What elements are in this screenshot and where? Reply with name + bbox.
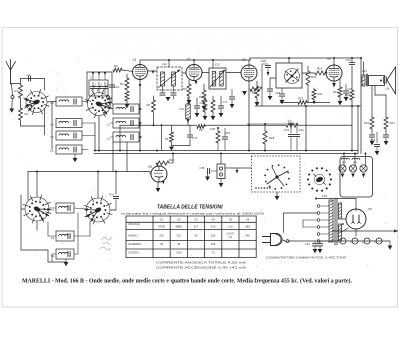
svg-text:CA: CA [229, 236, 233, 239]
svg-text:(misurate fra i singoli elettr: (misurate fra i singoli elettrodi e mass… [121, 212, 264, 216]
mains plug [263, 236, 271, 238]
wire riser x161 [161, 125, 163, 150]
svg-text:R21: R21 [318, 92, 324, 96]
switch plate S6 (dotted circle) [330, 178, 332, 180]
wire antenna lead [11, 83, 21, 85]
svg-text:V3: V3 [194, 218, 198, 222]
junction arrow R21 [313, 101, 316, 105]
svg-text:L11: L11 [162, 62, 167, 66]
trimmer box C7 [89, 80, 108, 96]
capacitor C44 [319, 241, 321, 243]
wire S2b riser [97, 172, 99, 199]
svg-text:V3: V3 [242, 58, 246, 62]
capacitor C30b [222, 136, 227, 138]
coil box L7 [56, 203, 74, 213]
svg-text:C1: C1 [27, 73, 31, 77]
svg-text:230: 230 [159, 234, 164, 238]
connector J1 [217, 164, 225, 179]
svg-text:6B8G: 6B8G [175, 225, 182, 229]
switch wafer S1a [26, 92, 47, 113]
switch wafer S2a [25, 197, 49, 221]
resistor R18 [264, 124, 266, 131]
wire L12 to V3 [226, 72, 241, 74]
resistor R6 [153, 96, 155, 100]
svg-text:L14: L14 [385, 87, 390, 91]
rectifier V6 [346, 209, 366, 229]
wire C7 left rail [86, 72, 88, 103]
ground C38 [207, 173, 209, 177]
wire osc left [270, 77, 276, 79]
switch wafer S1b [88, 93, 111, 116]
wire coilA verticals [112, 142, 114, 172]
wire S2b right [110, 209, 116, 211]
wire bus drop x352 [351, 66, 353, 90]
resistor R23 on bus [280, 102, 298, 104]
svg-text:R1: R1 [15, 89, 19, 93]
svg-text:C17: C17 [193, 136, 198, 140]
svg-text:R26: R26 [364, 121, 370, 125]
antenna [10, 70, 12, 84]
resistor R5b [171, 125, 173, 132]
wire S1b down rail [98, 116, 100, 151]
ground C44 [318, 249, 323, 253]
resistor R10 [302, 72, 315, 74]
svg-text:C26: C26 [261, 59, 267, 63]
choke R4b [125, 91, 129, 101]
svg-text:1+9: 1+9 [228, 225, 233, 229]
svg-text:V6: V6 [246, 218, 250, 222]
svg-text:2×270: 2×270 [227, 232, 235, 235]
svg-text:V2: V2 [177, 218, 181, 222]
terminal S1b b [107, 103, 110, 106]
svg-text:R14: R14 [250, 89, 256, 93]
tube V1 [133, 65, 148, 80]
wire coilA stubs [110, 117, 113, 119]
wire lamp feeds [343, 154, 345, 166]
resistor R1 [20, 79, 22, 86]
L12 secondary [220, 72, 224, 87]
wire V1 cathode rail [139, 80, 141, 151]
svg-text:R23: R23 [298, 97, 304, 101]
dial unit shield (dotted) [252, 156, 301, 192]
wire AVC bus [28, 171, 150, 173]
ground R17 [203, 116, 208, 120]
coil box L6 [56, 145, 82, 154]
resistor R18a [212, 96, 214, 100]
ground R18a [211, 116, 216, 120]
wire r18 top link [247, 123, 297, 125]
svg-text:200: 200 [211, 234, 216, 238]
coil box L2 [113, 118, 139, 128]
capacitor C12 [162, 86, 164, 92]
svg-text:L15: L15 [322, 194, 327, 198]
pencil mark [100, 237, 112, 250]
resistor R17 [204, 96, 206, 100]
output transformer L13 [362, 75, 365, 86]
ground C25 [344, 97, 349, 101]
electrolytic C49 [364, 238, 370, 244]
svg-text:+: + [350, 240, 352, 244]
tube V3 [241, 65, 257, 81]
resistor R4 [126, 74, 128, 78]
tube V5 [151, 166, 167, 182]
wire V1 to L11 [148, 70, 158, 72]
wire J1 riser [220, 154, 222, 165]
wire C41 riser [115, 172, 117, 195]
electrolytic C47 [340, 238, 346, 244]
svg-text:C30: C30 [210, 127, 216, 131]
ground R26 [370, 141, 375, 145]
L15 secondary b [339, 224, 342, 241]
wire V2 to L12 [202, 72, 209, 74]
wire L6 ground stub [74, 154, 76, 158]
ground L6 [73, 158, 78, 162]
wire L1 taps [139, 108, 142, 110]
ground ant [9, 109, 14, 113]
L15 secondary a [339, 203, 342, 219]
ground R24 [338, 101, 343, 105]
wire osc links [261, 64, 263, 89]
junction arrow V5 [162, 181, 165, 184]
ground La2 [351, 174, 355, 178]
junction arrow C26 [267, 72, 270, 76]
ground V5 [157, 182, 159, 188]
svg-text:C10: C10 [114, 85, 120, 89]
svg-text:6E5: 6E5 [245, 225, 250, 229]
wire L4-6 right rail [82, 101, 87, 103]
wire tap selector b [303, 219, 317, 221]
ground R15 [202, 106, 207, 110]
wire top bus right [250, 57, 361, 59]
terminal ant [11, 96, 14, 99]
wire L7 links [49, 207, 56, 209]
wire V3 cathode rail [248, 81, 250, 151]
svg-text:C33: C33 [370, 138, 376, 142]
wire J1 to dial [225, 167, 252, 169]
svg-text:V5: V5 [148, 165, 152, 169]
wire top bus left (B+ line) [140, 59, 250, 61]
trimmer C8 [92, 82, 94, 86]
ground C27 [268, 96, 273, 100]
coil box L1 [113, 104, 139, 114]
capacitor C37 [383, 134, 388, 136]
svg-text:L7: L7 [51, 208, 55, 212]
wire grid rail [111, 72, 113, 104]
capacitor C27 [267, 88, 272, 90]
wire main bus upper [94, 150, 358, 152]
wire L11 to V2 [182, 72, 186, 74]
capacitor C43 [314, 241, 316, 243]
pilot lamp La1 [339, 165, 346, 172]
ground V4 [332, 83, 336, 88]
svg-text:COMMUTATORE GAMMA IN POS. 2-43: COMMUTATORE GAMMA IN POS. 2-43C TONF. [266, 256, 347, 260]
wire L15 top [316, 198, 356, 200]
svg-text:R28: R28 [169, 158, 174, 162]
oscillator unit S3 [276, 63, 302, 88]
svg-text:R3: R3 [114, 64, 118, 68]
wire S1a to coils [47, 101, 56, 104]
capacitor C41 [113, 195, 118, 197]
svg-text:R2: R2 [25, 112, 29, 116]
mains cord [283, 240, 290, 242]
wire L2 taps [139, 122, 142, 124]
svg-text:+: + [362, 240, 364, 244]
svg-text:C28: C28 [275, 91, 280, 95]
ground La1 [341, 174, 345, 178]
capacitor C10 [109, 84, 114, 86]
svg-text:L16: L16 [179, 107, 184, 111]
svg-text:C38: C38 [200, 166, 205, 170]
svg-text:R4: R4 [120, 82, 124, 86]
svg-text:R18: R18 [269, 136, 275, 140]
wire tap selector a [284, 212, 318, 214]
capacitor C36 [369, 134, 374, 136]
resistor R2 [20, 98, 22, 108]
capacitor C1 [21, 78, 45, 80]
wire bus drop x358 [357, 106, 359, 154]
switch wafer S2b [86, 198, 110, 222]
junction arrow J2 [236, 168, 238, 170]
ground C21 [230, 104, 235, 108]
L11 primary [161, 72, 165, 86]
ground C28 [280, 100, 285, 104]
contact row [255, 187, 257, 189]
wire L3 right [139, 136, 142, 138]
coil box L3 [113, 132, 139, 142]
resistor R19b [250, 87, 262, 91]
ground R27 [384, 141, 389, 145]
coil box L5 [56, 131, 82, 140]
L13 secondary [369, 76, 385, 86]
wire S1a bottom frame [21, 125, 45, 127]
resistor R24 [339, 79, 341, 87]
wire trimmer feed [87, 71, 112, 73]
svg-text:L12: L12 [215, 63, 220, 67]
ground V3k [242, 91, 247, 95]
resistor R21 [313, 88, 315, 90]
wire bus to V5 [149, 172, 151, 175]
tube V4 [326, 65, 342, 81]
svg-text:+: + [374, 240, 376, 244]
lamp box [340, 157, 373, 198]
tube V2 [186, 65, 202, 81]
trimmer C11 [104, 82, 106, 86]
svg-text:0.90: 0.90 [176, 251, 182, 255]
wire HT bus [332, 230, 394, 232]
ground La3 [362, 174, 366, 178]
svg-text:C41: C41 [109, 193, 115, 197]
svg-text:+: + [338, 240, 340, 244]
wire left frame [20, 195, 22, 250]
wire anode bus right mid [255, 105, 360, 107]
svg-text:V1: V1 [133, 58, 137, 62]
svg-text:L8: L8 [51, 236, 55, 240]
wire frame right [44, 79, 46, 91]
svg-text:MARELLI - Mod. 166 B - Onde me: MARELLI - Mod. 166 B - Onde medie, onde … [22, 278, 352, 285]
junction arrow V1 [139, 84, 142, 88]
coil box L4 [56, 119, 82, 128]
svg-text:ANODO: ANODO [128, 234, 138, 238]
svg-text:C32: C32 [299, 128, 305, 132]
electrolytic C50 [376, 238, 382, 244]
wire plug riser [283, 213, 285, 233]
capacitor C28 [281, 88, 283, 93]
wire mid bus y125 [120, 124, 197, 126]
capacitor C33 [376, 132, 378, 143]
resistor R19 [307, 66, 309, 71]
L15 core [334, 198, 336, 245]
resistor R11 [286, 123, 298, 127]
svg-text:R24: R24 [333, 90, 338, 94]
svg-text:V1: V1 [160, 218, 164, 222]
S3 rotor [285, 69, 300, 84]
wire dial link [300, 167, 306, 169]
svg-text:R5: R5 [165, 137, 169, 141]
resistor R9 [197, 125, 205, 129]
svg-text:R11: R11 [288, 120, 293, 124]
capacitor C21 [231, 89, 233, 96]
wire L8 links [74, 235, 90, 237]
svg-text:C43: C43 [305, 242, 310, 246]
svg-text:V4: V4 [327, 57, 331, 61]
junction arrow V2k [195, 81, 198, 85]
resistor R5 [157, 163, 158, 167]
capacitor C38 [211, 170, 217, 172]
svg-text:C24: C24 [346, 58, 352, 62]
L15 taps [317, 205, 320, 208]
bleed-through ghost [88, 36, 318, 57]
ballast coil b [352, 158, 360, 159]
wire V6 bottom [355, 229, 357, 236]
table grid [125, 216, 127, 258]
svg-text:C17: C17 [223, 100, 228, 104]
svg-text:245: 245 [211, 242, 216, 246]
wire L15 to V6 [342, 218, 347, 220]
L11 secondary [172, 72, 176, 86]
wire main bus lower [94, 153, 358, 155]
resistor R16 [188, 80, 190, 84]
junction arrow L11 in [152, 71, 155, 75]
wire L13 primary top [363, 62, 365, 75]
svg-text:C19: C19 [108, 97, 113, 101]
resistor R14 [256, 81, 258, 86]
capacitor C26 [262, 63, 268, 65]
svg-text:V5: V5 [229, 218, 233, 222]
wire to ground [11, 99, 14, 109]
capacitor C24 [351, 58, 353, 62]
svg-text:V4: V4 [211, 218, 215, 222]
wire S2a riser [36, 172, 38, 198]
wire cord to caps [289, 240, 329, 242]
ground L11 [166, 97, 171, 101]
svg-text:R12: R12 [225, 131, 231, 135]
wire R5 riser [172, 154, 174, 164]
electrolytic C48 [352, 238, 358, 244]
ballast coil a [342, 158, 350, 159]
wire bus drop x306 [305, 106, 307, 151]
L15 primary [329, 200, 333, 242]
wire V1 anode riser [139, 60, 141, 65]
svg-text:C7: C7 [90, 76, 94, 80]
svg-text:C31: C31 [284, 128, 290, 132]
ground S4 [276, 192, 278, 196]
capacitor C25 [345, 84, 347, 90]
ground J1 [220, 179, 222, 184]
svg-text:CORRENTE ACCENSIONE 0,45 +42: CORRENTE ACCENSIONE 0,45 +42 mA [156, 265, 246, 269]
resistor R26 [371, 86, 373, 118]
svg-text:VALVOLE: VALVOLE [128, 222, 140, 226]
resistor R3 [113, 68, 122, 72]
capacitor C20 [196, 98, 198, 105]
IF transformer L12 [209, 68, 226, 89]
capacitor C13 [173, 86, 175, 92]
svg-text:SCHERMO: SCHERMO [128, 242, 141, 246]
IF transformer L11 shield [157, 67, 182, 90]
svg-text:TABELLA DELLE TENSIONI: TABELLA DELLE TENSIONI [157, 205, 223, 211]
terminal S1b a [107, 96, 110, 99]
svg-text:R9: R9 [199, 128, 203, 132]
svg-text:6TH8: 6TH8 [158, 225, 165, 229]
capacitor C32 [296, 124, 298, 133]
ground R14 [255, 102, 260, 106]
svg-text:245: 245 [245, 234, 250, 238]
svg-text:CATODO: CATODO [128, 251, 139, 255]
capacitor C17b [189, 125, 191, 134]
L11 tuning arrow [158, 70, 180, 89]
svg-text:9+5: 9+5 [211, 225, 216, 229]
wire filter bus [289, 240, 390, 242]
wire S2a bottom [36, 221, 38, 230]
resistor R27 [374, 86, 376, 96]
ground S2 [65, 259, 67, 262]
wire speaker link [385, 79, 388, 81]
L12 primary [212, 72, 216, 87]
svg-text:R16: R16 [182, 87, 188, 91]
svg-text:C25: C25 [348, 87, 353, 91]
svg-text:210: 210 [177, 234, 182, 238]
resistor R22 [350, 90, 354, 100]
wire L9 links [74, 253, 78, 255]
ground C43 [313, 249, 318, 253]
svg-text:CORRENTE ANODICA TOTALE 4,50: CORRENTE ANODICA TOTALE 4,50 mA [156, 261, 246, 265]
trimmer C9 [98, 82, 100, 86]
capacitor C30 [217, 128, 219, 131]
resistor R15 [203, 84, 205, 90]
coil box L8 [56, 231, 74, 241]
ground R16 [187, 100, 192, 104]
coil box L3b [56, 97, 82, 106]
pilot lamp La2 [349, 165, 356, 172]
loudspeaker L14 [384, 77, 387, 83]
capacitor C31 [290, 124, 292, 133]
band switch S4 rotor [288, 178, 290, 180]
svg-text:L13: L13 [362, 69, 367, 73]
wire bus feed risers [193, 60, 195, 65]
svg-text:R6: R6 [147, 103, 151, 107]
ground C20 [195, 113, 200, 117]
coil L16 [186, 104, 191, 119]
ground R4 [125, 104, 130, 108]
ground RC [169, 147, 174, 151]
scan speckle [15, 58, 387, 267]
svg-text:R10: R10 [317, 67, 323, 71]
svg-text:6J7: 6J7 [194, 225, 199, 229]
svg-text:L9: L9 [51, 254, 55, 258]
L12 arrow [210, 70, 225, 87]
pilot lamp La3 [360, 165, 367, 172]
junction arrow L16 [187, 120, 190, 124]
ground C17 [219, 113, 224, 117]
